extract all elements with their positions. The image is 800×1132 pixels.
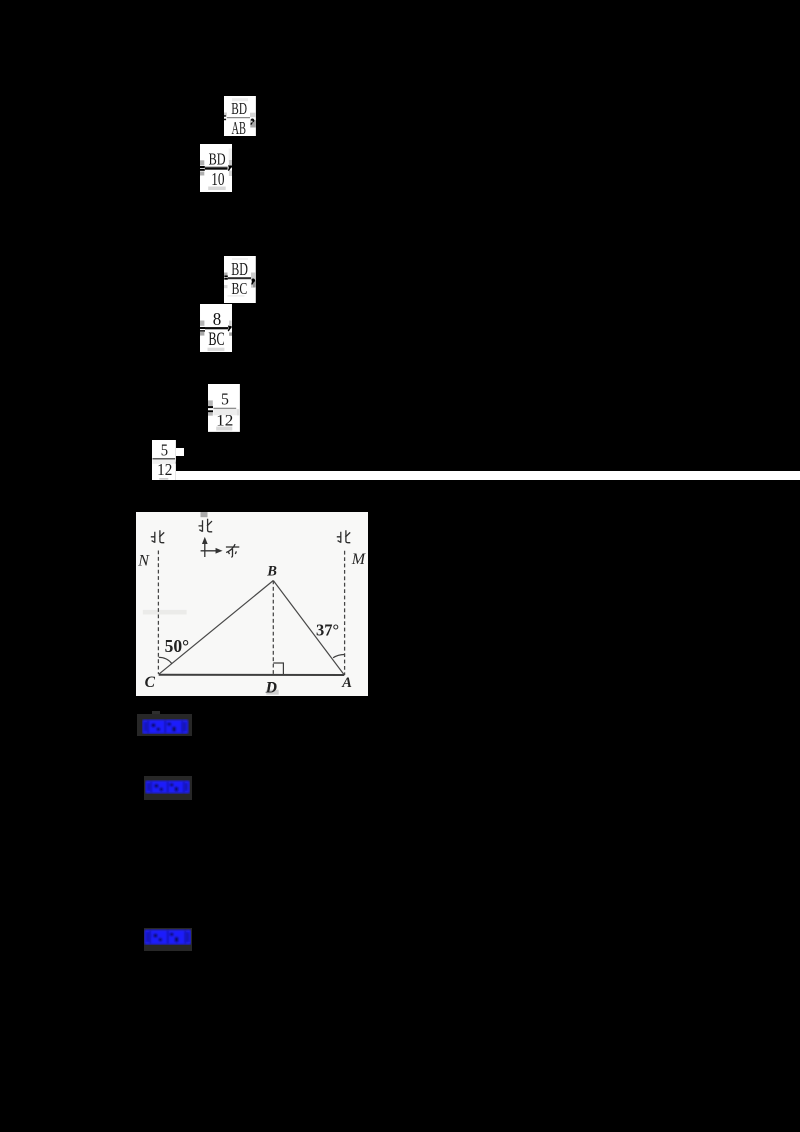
svg-text:BD: BD [231, 259, 248, 279]
svg-text:10: 10 [211, 168, 224, 188]
svg-text:BC: BC [208, 329, 224, 349]
svg-text:D: D [264, 679, 276, 696]
svg-text:5: 5 [161, 440, 168, 459]
svg-text:B: B [266, 563, 277, 579]
svg-text:BD: BD [208, 149, 225, 168]
svg-text:37°: 37° [316, 620, 339, 639]
svg-text:C: C [144, 674, 155, 691]
svg-text:12: 12 [157, 460, 172, 479]
svg-text:AB: AB [231, 118, 245, 136]
svg-text:BD: BD [231, 99, 247, 118]
svg-text:50°: 50° [164, 636, 188, 656]
svg-text:5: 5 [221, 390, 229, 409]
svg-text:A: A [341, 674, 352, 690]
svg-text:M: M [350, 551, 366, 568]
svg-text:N: N [137, 552, 150, 569]
svg-text:8: 8 [213, 309, 222, 329]
